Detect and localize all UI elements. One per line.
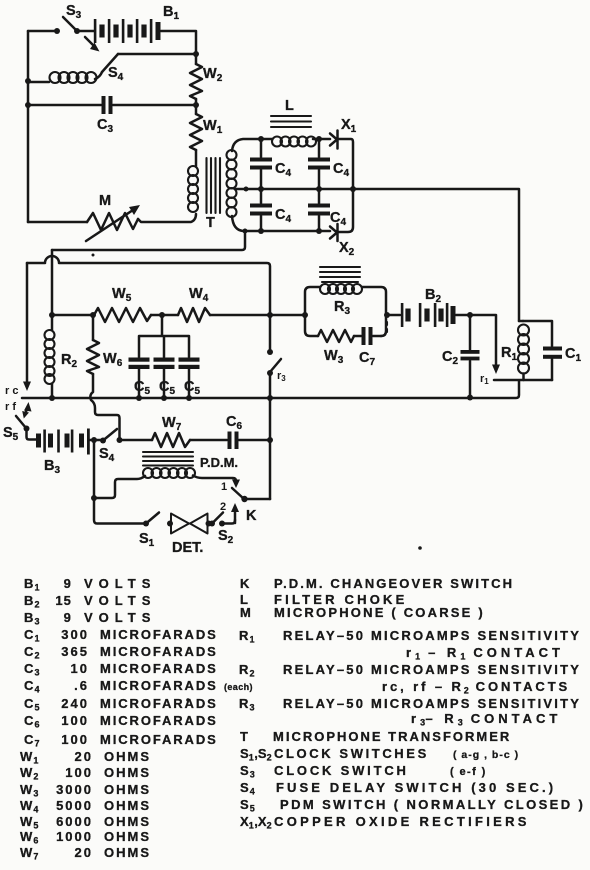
- node r3 top on W rail: [267, 312, 273, 318]
- switch S5 blade: [16, 416, 26, 428]
- svg-text:20: 20: [75, 749, 93, 764]
- resistor W4: [178, 308, 210, 322]
- wire R1 top frame to C1: [523, 321, 552, 346]
- R3 branch upper frame: [305, 287, 386, 315]
- svg-text:OHMS: OHMS: [104, 749, 151, 764]
- node bottom rail col1: [258, 228, 264, 234]
- battery B1: [94, 19, 161, 43]
- arrow rf double: [25, 407, 28, 415]
- svg-text:K: K: [240, 576, 251, 591]
- wire C3 to W junction: [113, 104, 196, 107]
- svg-text:( e-f ): ( e-f ): [450, 766, 487, 778]
- node bridge output: [350, 186, 356, 192]
- resistor W5: [94, 308, 151, 322]
- wire M line left: [28, 221, 87, 224]
- R3 branch lower frame: [305, 315, 386, 336]
- svg-text:( a-g , b-c ): ( a-g , b-c ): [453, 749, 519, 761]
- svg-text:MICROFARADS: MICROFARADS: [100, 696, 218, 711]
- svg-text:100: 100: [61, 713, 89, 728]
- svg-text:RELAY–50 MICROAMPS SENSITIVITY: RELAY–50 MICROAMPS SENSITIVITY: [283, 628, 581, 643]
- svg-text:MICROFARADS: MICROFARADS: [100, 713, 218, 728]
- capacitor C4 top-right: [318, 139, 321, 157]
- battery B3: [36, 429, 90, 455]
- svg-text:10: 10: [71, 661, 89, 676]
- node C2 bottom on rail: [467, 395, 473, 401]
- svg-text:100: 100: [61, 732, 89, 747]
- switch S1 blade: [146, 513, 159, 524]
- arrowhead K contact 1: [232, 480, 240, 489]
- node B3 drop junction: [91, 437, 97, 443]
- svg-text:MICROPHONE TRANSFORMER: MICROPHONE TRANSFORMER: [273, 729, 511, 744]
- wire bridge output long horizontal and down right side: [353, 189, 519, 321]
- wire junction down to W2: [195, 54, 198, 64]
- switch K blade: [232, 488, 244, 499]
- wire secondary center tap: [236, 188, 246, 191]
- svg-text:OHMS: OHMS: [104, 829, 151, 844]
- wire B2 to node: [456, 314, 470, 317]
- switch r3 upper contact: [269, 315, 272, 351]
- capacitor C3: [102, 96, 106, 114]
- filter choke L core: [271, 116, 311, 127]
- node top rail C4 col1: [258, 136, 264, 142]
- capacitor C2: [469, 315, 472, 350]
- relay PDM coil: [143, 468, 195, 478]
- svg-text:T: T: [206, 215, 215, 231]
- node S1 left: [143, 521, 149, 527]
- filter choke L coil: [272, 137, 316, 147]
- node middle rail col2: [316, 186, 322, 192]
- node B2 right: [467, 312, 473, 318]
- capacitor C1: [543, 347, 562, 351]
- node S3 right contact: [74, 28, 80, 34]
- wire W1 to transformer primary: [195, 150, 198, 166]
- svg-text:3000: 3000: [56, 782, 93, 797]
- node W rail C5 tap: [159, 312, 165, 318]
- relay R3 branch left node: [302, 312, 308, 318]
- wire left corner down to rc arrow: [26, 263, 29, 383]
- wire X2 to right vertical: [338, 189, 353, 232]
- wire S5 to battery B3: [27, 430, 37, 440]
- resistor W1: [190, 114, 202, 150]
- wire r3 down through rail to C6 and K: [269, 373, 272, 499]
- node DET left: [167, 521, 173, 527]
- svg-text:300: 300: [61, 627, 89, 642]
- svg-text:VOLTS: VOLTS: [84, 610, 156, 625]
- rc rail: [22, 381, 519, 398]
- node top rail C4 col2: [316, 136, 322, 142]
- svg-text:1: 1: [221, 481, 227, 493]
- wire W3 to C7: [354, 335, 361, 338]
- svg-text:DET.: DET.: [172, 540, 203, 556]
- wire to S4 left contact: [94, 439, 103, 442]
- svg-text:VOLTS: VOLTS: [84, 576, 156, 591]
- node bottom rail tap: [243, 229, 248, 234]
- svg-text:OHMS: OHMS: [104, 845, 151, 860]
- svg-text:COPPER OXIDE RECTIFIERS: COPPER OXIDE RECTIFIERS: [274, 814, 530, 829]
- node S2 left: [209, 521, 215, 527]
- capacitor C5 b: [154, 358, 175, 362]
- svg-text:240: 240: [61, 696, 89, 711]
- svg-text:MICROFARADS: MICROFARADS: [100, 627, 218, 642]
- svg-text:1000: 1000: [56, 829, 93, 844]
- relay R1 coil: [519, 320, 523, 323]
- svg-text:P.D.M.: P.D.M.: [200, 455, 238, 470]
- node B1/S4 junction: [193, 51, 199, 57]
- svg-text:r f: r f: [5, 401, 16, 413]
- node S5: [24, 426, 30, 432]
- wire secondary bottom to bottom rail: [232, 216, 245, 231]
- relay PDM core: [143, 452, 193, 466]
- node R3 branch right: [384, 312, 390, 318]
- svg-text:6000: 6000: [56, 814, 93, 829]
- svg-text:M: M: [99, 193, 111, 209]
- arrow at S4: [85, 37, 95, 47]
- svg-text:9: 9: [64, 576, 72, 591]
- wire S4 blade to B1 junction: [118, 53, 196, 56]
- svg-text:M: M: [240, 605, 252, 620]
- wire down from y250 line through hop to W rail: [51, 250, 54, 313]
- resistor W6: [87, 340, 99, 374]
- svg-text:RELAY–50 MICROAMPS SENSITIVITY: RELAY–50 MICROAMPS SENSITIVITY: [283, 662, 581, 677]
- svg-text:FUSE DELAY SWITCH (30 SEC.): FUSE DELAY SWITCH (30 SEC.): [276, 780, 556, 795]
- wire long horizontal y263 with hop and down to r3: [27, 256, 270, 313]
- wire W2 to node: [195, 99, 198, 105]
- wire R3 right to B2: [387, 314, 400, 317]
- svg-text:OHMS: OHMS: [104, 765, 151, 780]
- nodes C5 on rc rail: [136, 395, 142, 401]
- wire W6 bottom jog over rail to S4: [90, 374, 119, 437]
- svg-text:.6: .6: [74, 678, 89, 693]
- svg-text:365: 365: [61, 644, 89, 659]
- svg-text:VOLTS: VOLTS: [84, 593, 156, 608]
- wire B3 drop: [93, 440, 96, 498]
- svg-text:T: T: [240, 729, 249, 744]
- node PDM drop junction: [91, 495, 97, 501]
- capacitor C5 a: [129, 358, 150, 362]
- capacitor C4 bottom-right: [318, 189, 321, 203]
- arrowhead rc: [23, 382, 31, 392]
- C5 bank connector: [139, 315, 189, 357]
- battery B2: [401, 303, 456, 327]
- node r3 line on rc rail: [267, 395, 273, 401]
- wire C3 line left: [28, 104, 101, 107]
- wire X1 to right corner down: [338, 139, 353, 189]
- switch S2 blade: [212, 513, 223, 524]
- wire secondary top to top rail: [232, 139, 261, 151]
- svg-text:CLOCK SWITCHES: CLOCK SWITCHES: [274, 746, 429, 761]
- svg-text:100: 100: [65, 765, 93, 780]
- resistor W7: [152, 433, 190, 447]
- resistor W3: [318, 330, 354, 342]
- wire B3 to S4 node: [90, 439, 94, 442]
- wire S2 to contact 2: [222, 520, 235, 524]
- svg-text:CLOCK SWITCH: CLOCK SWITCH: [274, 763, 409, 778]
- transformer T secondary coil: [227, 150, 237, 217]
- rectifier X1: [330, 131, 338, 149]
- wire bottom frame r1 contact line: [494, 379, 552, 382]
- svg-text:OHMS: OHMS: [104, 782, 151, 797]
- wire S3 to battery B1: [77, 30, 94, 33]
- resistor W2: [190, 64, 202, 99]
- svg-text:MICROFARADS: MICROFARADS: [100, 644, 218, 659]
- node W rail left: [49, 312, 55, 318]
- wire M to primary bottom: [138, 214, 196, 222]
- wire PDM right to K contact 1: [193, 476, 236, 482]
- capacitor C5 c: [179, 358, 200, 362]
- bottom rail: [245, 230, 330, 233]
- arrow K contact 2: [234, 511, 237, 523]
- node center tap: [244, 187, 249, 192]
- wire coil line left: [28, 81, 49, 84]
- wire K pivot to r3 vertical: [245, 498, 271, 501]
- relay R2 coil: [51, 315, 54, 330]
- node C6 on r3 vertical: [267, 437, 273, 443]
- node middle rail col1: [258, 186, 264, 192]
- capacitor C4 top-left: [260, 139, 263, 157]
- inductor coil at S4: [50, 72, 97, 83]
- node K pivot: [241, 496, 247, 502]
- svg-text:(each): (each): [224, 682, 253, 692]
- switch S3 blade: [63, 17, 77, 31]
- svg-text:OHMS: OHMS: [104, 814, 151, 829]
- node R2 bottom on rc rail: [49, 395, 55, 401]
- capacitor C6: [228, 432, 232, 450]
- top rail: [261, 138, 330, 141]
- W rail: [52, 314, 305, 317]
- svg-text:PDM SWITCH ( NORMALLY CLOSE: PDM SWITCH ( NORMALLY CLOSED ): [280, 797, 585, 812]
- wire W7 to C6: [190, 439, 227, 442]
- svg-text:rc, rf – R2 CONTACTS: rc, rf – R2 CONTACTS: [382, 679, 570, 696]
- wire S4 to W7: [120, 439, 153, 442]
- wire C6 to r3 vertical: [239, 439, 270, 442]
- left rail vertical: [27, 31, 30, 222]
- node W6 top: [90, 312, 96, 318]
- svg-text:5000: 5000: [56, 798, 93, 813]
- svg-text:L: L: [285, 98, 294, 114]
- node left rail coil line: [25, 78, 31, 84]
- wire coil to S4 pivot: [95, 72, 102, 79]
- svg-text:RELAY–50 MICROAMPS SENSITIVITY: RELAY–50 MICROAMPS SENSITIVITY: [283, 696, 581, 711]
- wire W6 top: [92, 315, 95, 340]
- svg-text:9: 9: [64, 610, 72, 625]
- svg-text:r c: r c: [5, 385, 18, 397]
- svg-text:MICROFARADS: MICROFARADS: [100, 732, 218, 747]
- svg-text:2: 2: [220, 501, 226, 513]
- detector DET bowtie: [171, 514, 208, 534]
- wire from bridge bottom down and left: [52, 231, 245, 250]
- svg-text:OHMS: OHMS: [104, 798, 151, 813]
- svg-text:15: 15: [55, 593, 72, 608]
- node W2/W1/C3: [193, 102, 199, 108]
- transformer T primary coil: [188, 166, 198, 212]
- arrowhead r1: [492, 365, 500, 375]
- svg-text:r1 – R1 CONTACT: r1 – R1 CONTACT: [406, 645, 564, 662]
- microphone M zigzag: [87, 213, 138, 230]
- svg-text:P.D.M. CHANGEOVER SWITCH: P.D.M. CHANGEOVER SWITCH: [274, 576, 514, 591]
- wire node to W1: [195, 105, 198, 114]
- switch S4 lower blade: [100, 438, 106, 444]
- wire B2 node to r1 arm corner: [470, 315, 496, 366]
- wire PDM left to drop node: [94, 476, 145, 498]
- wires C5 bottoms to rc rail: [139, 369, 189, 398]
- relay R3 coil: [320, 284, 362, 294]
- svg-text:MICROFARADS: MICROFARADS: [100, 661, 218, 676]
- wire C1 bottom down to bottom frame: [551, 359, 554, 380]
- middle rail: [246, 188, 353, 191]
- wire C7 to frame: [373, 335, 381, 338]
- arrow through M: [86, 210, 133, 241]
- svg-text:K: K: [246, 508, 257, 524]
- node S3 left contact: [54, 28, 60, 34]
- wire top-left horizontal to S3: [28, 30, 57, 33]
- node S4 right contact: [117, 437, 123, 443]
- node left rail C3 line: [25, 102, 31, 108]
- wire B1 to right corner down to junction: [161, 31, 196, 54]
- node S2 right: [219, 521, 225, 527]
- capacitor C4 bottom-left: [260, 189, 263, 203]
- transformer T core: [207, 158, 221, 213]
- switch S4 blade: [102, 54, 118, 72]
- switch r3 blade: [270, 359, 281, 372]
- node DET right: [206, 521, 212, 527]
- relay R3 core: [320, 267, 360, 282]
- svg-text:20: 20: [75, 845, 93, 860]
- svg-text:r3– R3 CONTACT: r3– R3 CONTACT: [411, 711, 561, 728]
- svg-text:MICROPHONE ( COARSE ): MICROPHONE ( COARSE ): [274, 605, 485, 620]
- svg-text:MICROFARADS: MICROFARADS: [100, 678, 218, 693]
- node bottom rail col2: [316, 228, 322, 234]
- capacitor C7: [362, 327, 366, 345]
- wire drop to S1 line: [94, 498, 146, 524]
- rectifier X2: [330, 224, 338, 241]
